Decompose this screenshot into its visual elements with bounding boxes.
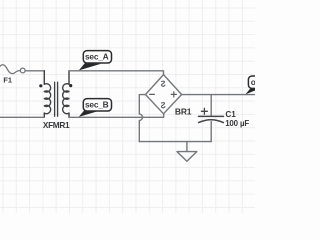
transformer XFMR1 xyxy=(39,71,72,130)
bridge rectifier BR1 xyxy=(146,75,192,117)
net flag sec_B xyxy=(79,99,112,117)
pin mark ~ (top) xyxy=(161,81,164,86)
primary polarity dot xyxy=(39,84,42,87)
pin mark ~ (bottom) xyxy=(161,103,164,108)
wire primary bottom to left edge xyxy=(0,116,44,118)
plus mark xyxy=(201,108,207,114)
svg-text:F1: F1 xyxy=(3,76,12,85)
secondary polarity dot xyxy=(69,84,72,87)
svg-text:XFMR1: XFMR1 xyxy=(43,120,70,130)
capacitor C1 xyxy=(199,95,250,142)
svg-text:100 µF: 100 µF xyxy=(225,119,249,128)
top plate xyxy=(199,115,224,117)
wire fuse to primary top xyxy=(25,70,44,72)
svg-text:sec_B: sec_B xyxy=(85,100,109,110)
primary top lead xyxy=(43,71,45,85)
net flag sec_A xyxy=(79,51,112,71)
primary winding xyxy=(44,84,50,114)
bottom rail wire xyxy=(139,141,211,143)
svg-text:sec_A: sec_A xyxy=(85,52,109,62)
bottom plate (curved) xyxy=(199,120,224,123)
wire sec_B (secondary bottom to bridge) xyxy=(69,114,164,118)
wire sec_A (secondary top to bridge) xyxy=(69,71,164,75)
core xyxy=(55,82,58,116)
secondary winding xyxy=(63,84,69,114)
svg-text:out: out xyxy=(251,77,255,87)
pin mark + (right) xyxy=(171,92,176,97)
fuse F1 xyxy=(0,65,25,85)
net flag out (clipped at right edge) xyxy=(245,76,276,94)
wire bridge minus down to rail (with hop over sec_B wire) xyxy=(139,95,145,142)
top lead xyxy=(210,95,212,116)
primary bottom lead xyxy=(43,113,45,117)
secondary top lead xyxy=(68,71,70,85)
bottom lead xyxy=(210,122,212,142)
wire bridge plus to right edge xyxy=(182,94,256,96)
secondary bottom lead xyxy=(68,113,70,117)
svg-text:C1: C1 xyxy=(225,110,236,119)
pin mark - (left) xyxy=(150,93,155,95)
svg-text:BR1: BR1 xyxy=(175,107,192,117)
ground xyxy=(177,142,197,162)
